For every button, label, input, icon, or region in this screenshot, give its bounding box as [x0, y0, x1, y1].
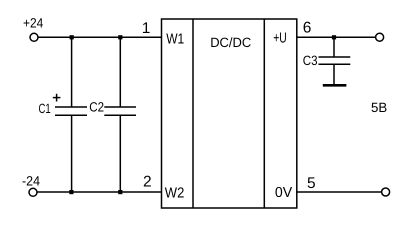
junction C2 bottom	[118, 190, 122, 194]
U1 left divider	[192, 19, 194, 208]
terminal -24	[29, 188, 37, 196]
svg-text:C2: C2	[89, 100, 104, 115]
wire bottom rail	[37, 191, 161, 193]
svg-text:6: 6	[303, 20, 312, 37]
terminal +U output	[376, 33, 384, 41]
wire pin6 to output	[297, 36, 375, 38]
junction C2 top	[118, 35, 122, 39]
U1 right divider	[263, 19, 265, 208]
svg-text:-24: -24	[22, 174, 40, 189]
svg-text:5: 5	[307, 175, 316, 192]
terminal 0V output	[382, 188, 390, 196]
wire C2 upper lead	[119, 37, 121, 107]
svg-text:DC/DC: DC/DC	[210, 35, 251, 50]
wire top rail	[38, 36, 161, 38]
C1 polarity plus	[53, 94, 61, 102]
junction C1 bottom	[69, 190, 73, 194]
wire C1 upper lead	[71, 37, 73, 107]
svg-text:5B: 5B	[371, 100, 387, 115]
converter U1 outline	[162, 19, 297, 208]
svg-text:C3: C3	[303, 53, 318, 68]
terminal +24	[30, 33, 38, 41]
wire C3 upper lead	[333, 37, 335, 57]
wire C2 lower lead	[119, 115, 121, 192]
wire pin5 to output	[297, 191, 381, 193]
capacitor C2	[104, 107, 136, 115]
capacitor C1	[55, 107, 87, 115]
svg-text:W2: W2	[165, 186, 185, 202]
wire C1 lower lead	[71, 115, 73, 192]
ground	[323, 84, 347, 87]
svg-text:+24: +24	[23, 16, 44, 31]
capacitor C3	[319, 57, 351, 64]
svg-text:2: 2	[143, 174, 152, 191]
svg-text:0V: 0V	[275, 185, 293, 201]
svg-text:C1: C1	[39, 101, 51, 116]
wire C3 lower lead	[333, 64, 335, 84]
svg-text:+U: +U	[273, 31, 287, 47]
junction C1 top	[70, 35, 74, 39]
svg-text:1: 1	[142, 20, 151, 37]
junction C3	[332, 35, 336, 39]
svg-text:W1: W1	[166, 32, 184, 48]
